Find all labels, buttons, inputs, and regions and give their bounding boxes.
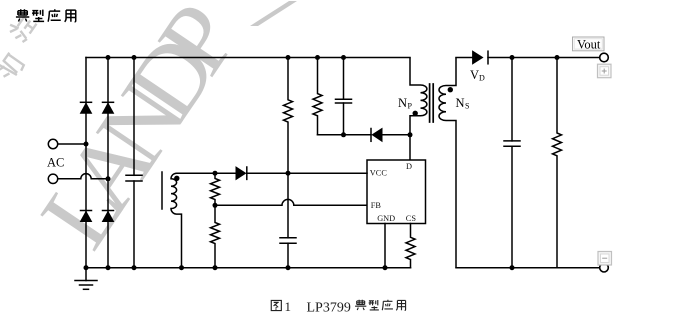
node rail FB-divider junction [213,265,218,270]
terminal minus marker [598,252,612,266]
label Ns [456,96,470,111]
node output cap top junction [510,55,515,60]
svg-text:1: 1 [285,299,292,314]
watermark layer [0,0,297,266]
label AC [47,156,64,170]
node Np polarity dot [413,111,418,116]
capacitor C2 VCC [280,173,296,268]
resistor R1 startup [284,58,293,174]
node secondary rail cap junction [510,265,515,270]
svg-text:Vout: Vout [577,38,601,52]
node rail aux junction [179,265,184,270]
node rail-left ground junction [84,265,89,270]
node rail bridge-right junction [106,265,111,270]
wire secondary top [456,57,472,59]
node bridge right leg top junction [106,55,111,60]
wire top rail [86,57,410,59]
transformer T1 core [430,84,434,122]
capacitor C4 output [504,58,520,268]
IC U1 LP3799 body [367,160,426,224]
label Np [398,96,413,111]
wire AC lower with hop over left leg [58,174,108,179]
node rail VCC-cap junction [286,265,291,270]
node clamp bottom junction [341,132,346,137]
AC terminal lower circle [48,174,57,183]
node Ns polarity dot [448,87,453,92]
resistor R2 FB divider upper [211,173,220,205]
diode D2 bridge upper-right [103,102,114,113]
diode D4 bridge lower-right [103,211,114,222]
transformer T1 primary Np [410,58,427,161]
transformer aux winding Na [162,172,215,268]
svg-text:V: V [470,68,479,82]
wire IC GND leg [384,224,386,268]
node FB divider junction [213,203,218,208]
capacitor C3 clamp [336,58,352,135]
node clamp cap top junction [341,55,346,60]
wire bridge right leg [107,58,109,268]
node output resistor top junction [555,55,560,60]
wire clamp bottom [318,134,372,136]
Vout terminal circle positive [600,53,609,62]
svg-text:D: D [406,162,412,171]
svg-text:FB: FB [371,201,382,210]
caption latin text [285,299,351,315]
node drain junction [408,132,413,137]
svg-text:S: S [465,102,469,111]
svg-text:AC: AC [47,156,64,170]
title 典型应用 [16,9,76,22]
wire secondary bottom rail [456,267,600,269]
svg-text:D: D [479,74,485,83]
Vout terminal circle negative [600,263,609,272]
ground [75,268,97,290]
diode D6 clamp [371,129,410,142]
node AC upper junction [84,142,89,147]
node rail GND junction [383,265,388,270]
wire FB line with hop over VCC-cap leg [215,199,367,205]
svg-text:LP3799: LP3799 [307,300,351,315]
node VCC junction [286,171,291,176]
wire AC upper to bridge [58,143,86,145]
svg-text:N: N [398,96,407,110]
resistor R5 output load [553,58,562,268]
node VCC line divider-top junction [213,171,218,176]
IC U1 pin labels [370,162,417,223]
transformer T1 secondary Ns [439,58,456,268]
node rail bulk-cap junction [132,265,137,270]
terminal plus marker [598,64,612,78]
diode D1 bridge upper-left [81,102,92,113]
svg-text:N: N [456,96,465,110]
resistor R6 current sense [406,224,415,268]
diode VD output rectifier [473,51,600,64]
wire primary bottom rail [86,267,411,269]
wire bridge left leg [85,58,87,268]
capacitor C1 bulk [126,58,142,268]
diode D3 bridge lower-left [81,211,92,222]
svg-text:LANDP: LANDP [19,0,257,266]
diode D5 aux rectifier [215,167,367,179]
svg-text:VCC: VCC [370,169,388,178]
node AC lower junction [106,176,111,181]
svg-text:CS: CS [406,214,417,223]
node bulk cap top junction [132,55,137,60]
label VD [470,68,485,83]
resistor R4 clamp [313,58,322,135]
node aux winding polarity dot [174,176,179,181]
node startup resistor top junction [286,55,291,60]
svg-text:P: P [408,102,413,111]
label Vout framed [573,37,605,52]
AC terminal upper circle [48,139,57,148]
node clamp resistor top junction [315,55,320,60]
resistor R3 FB divider lower [211,205,220,267]
caption 图 1 LP3799 典型应用 [271,300,405,311]
svg-text:GND: GND [377,214,395,223]
